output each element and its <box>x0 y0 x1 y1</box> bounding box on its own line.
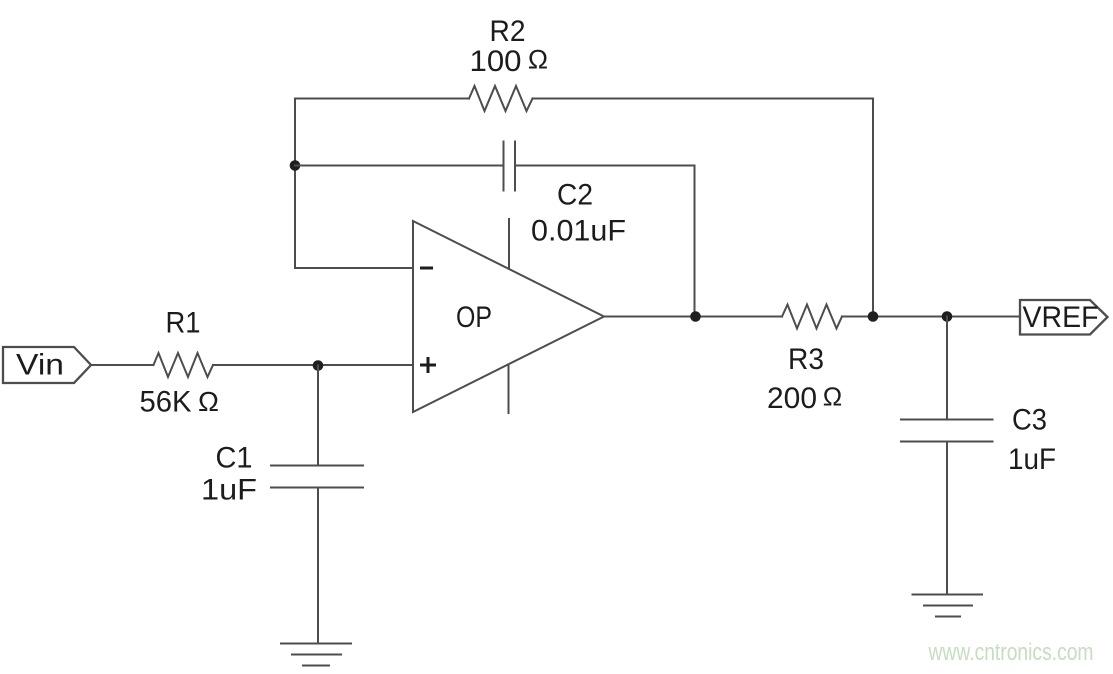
wire <box>91 364 154 366</box>
wire <box>294 99 296 269</box>
wire <box>694 166 696 317</box>
op-amp power pin bottom <box>508 366 510 413</box>
capacitor C1 <box>271 466 363 488</box>
svg-text:www.cntronics.com: www.cntronics.com <box>928 639 1094 666</box>
wire <box>295 165 504 167</box>
op-amp U1 <box>413 221 604 412</box>
wire <box>213 364 413 366</box>
port Vin <box>3 347 91 383</box>
op-amp minus input label <box>422 267 432 270</box>
svg-text:R3: R3 <box>788 343 824 376</box>
R3 value label 200 ohm <box>767 382 842 416</box>
svg-text:OP: OP <box>456 301 492 334</box>
svg-text:200: 200 <box>767 382 817 415</box>
ground <box>281 644 351 666</box>
svg-text:1uF: 1uF <box>1008 443 1056 476</box>
svg-text:56K: 56K <box>140 386 192 419</box>
wire <box>946 442 948 595</box>
wire <box>604 316 782 318</box>
wire <box>946 317 948 420</box>
node C junction dot <box>868 311 879 322</box>
svg-text:C3: C3 <box>1012 404 1047 437</box>
svg-text:0.01uF: 0.01uF <box>531 215 626 248</box>
wire <box>295 98 469 100</box>
R1 value label 56K ohm <box>140 386 219 419</box>
node A junction dot <box>313 360 324 371</box>
wire <box>317 488 319 644</box>
capacitor C3 <box>901 420 993 442</box>
R2 value label 100 ohm <box>470 45 549 79</box>
node OUT junction dot <box>690 311 701 322</box>
svg-text:100: 100 <box>470 45 522 78</box>
capacitor C2 <box>504 142 516 191</box>
wire <box>515 165 695 167</box>
port VREF <box>1020 300 1108 335</box>
svg-text:VREF: VREF <box>1023 301 1099 334</box>
svg-text:R2: R2 <box>490 15 526 48</box>
svg-text:Vin: Vin <box>16 349 64 382</box>
node B junction dot <box>290 160 301 171</box>
resistor R1 <box>154 353 214 377</box>
svg-text:Ω: Ω <box>823 382 842 412</box>
ground <box>913 595 983 617</box>
op-amp plus input label <box>422 359 435 372</box>
wire <box>295 267 413 269</box>
resistor R2 <box>469 86 533 111</box>
wire <box>317 366 319 466</box>
svg-text:Ω: Ω <box>528 45 548 75</box>
svg-text:C1: C1 <box>216 442 253 475</box>
wire <box>533 98 874 100</box>
svg-text:1uF: 1uF <box>201 474 257 507</box>
svg-text:Ω: Ω <box>198 386 219 417</box>
wire <box>842 316 1020 318</box>
svg-text:R1: R1 <box>166 307 201 340</box>
node D junction dot <box>942 311 953 322</box>
svg-text:C2: C2 <box>557 179 593 212</box>
op-amp power pin top <box>508 219 510 268</box>
wire <box>872 99 874 317</box>
resistor R3 <box>782 305 842 329</box>
